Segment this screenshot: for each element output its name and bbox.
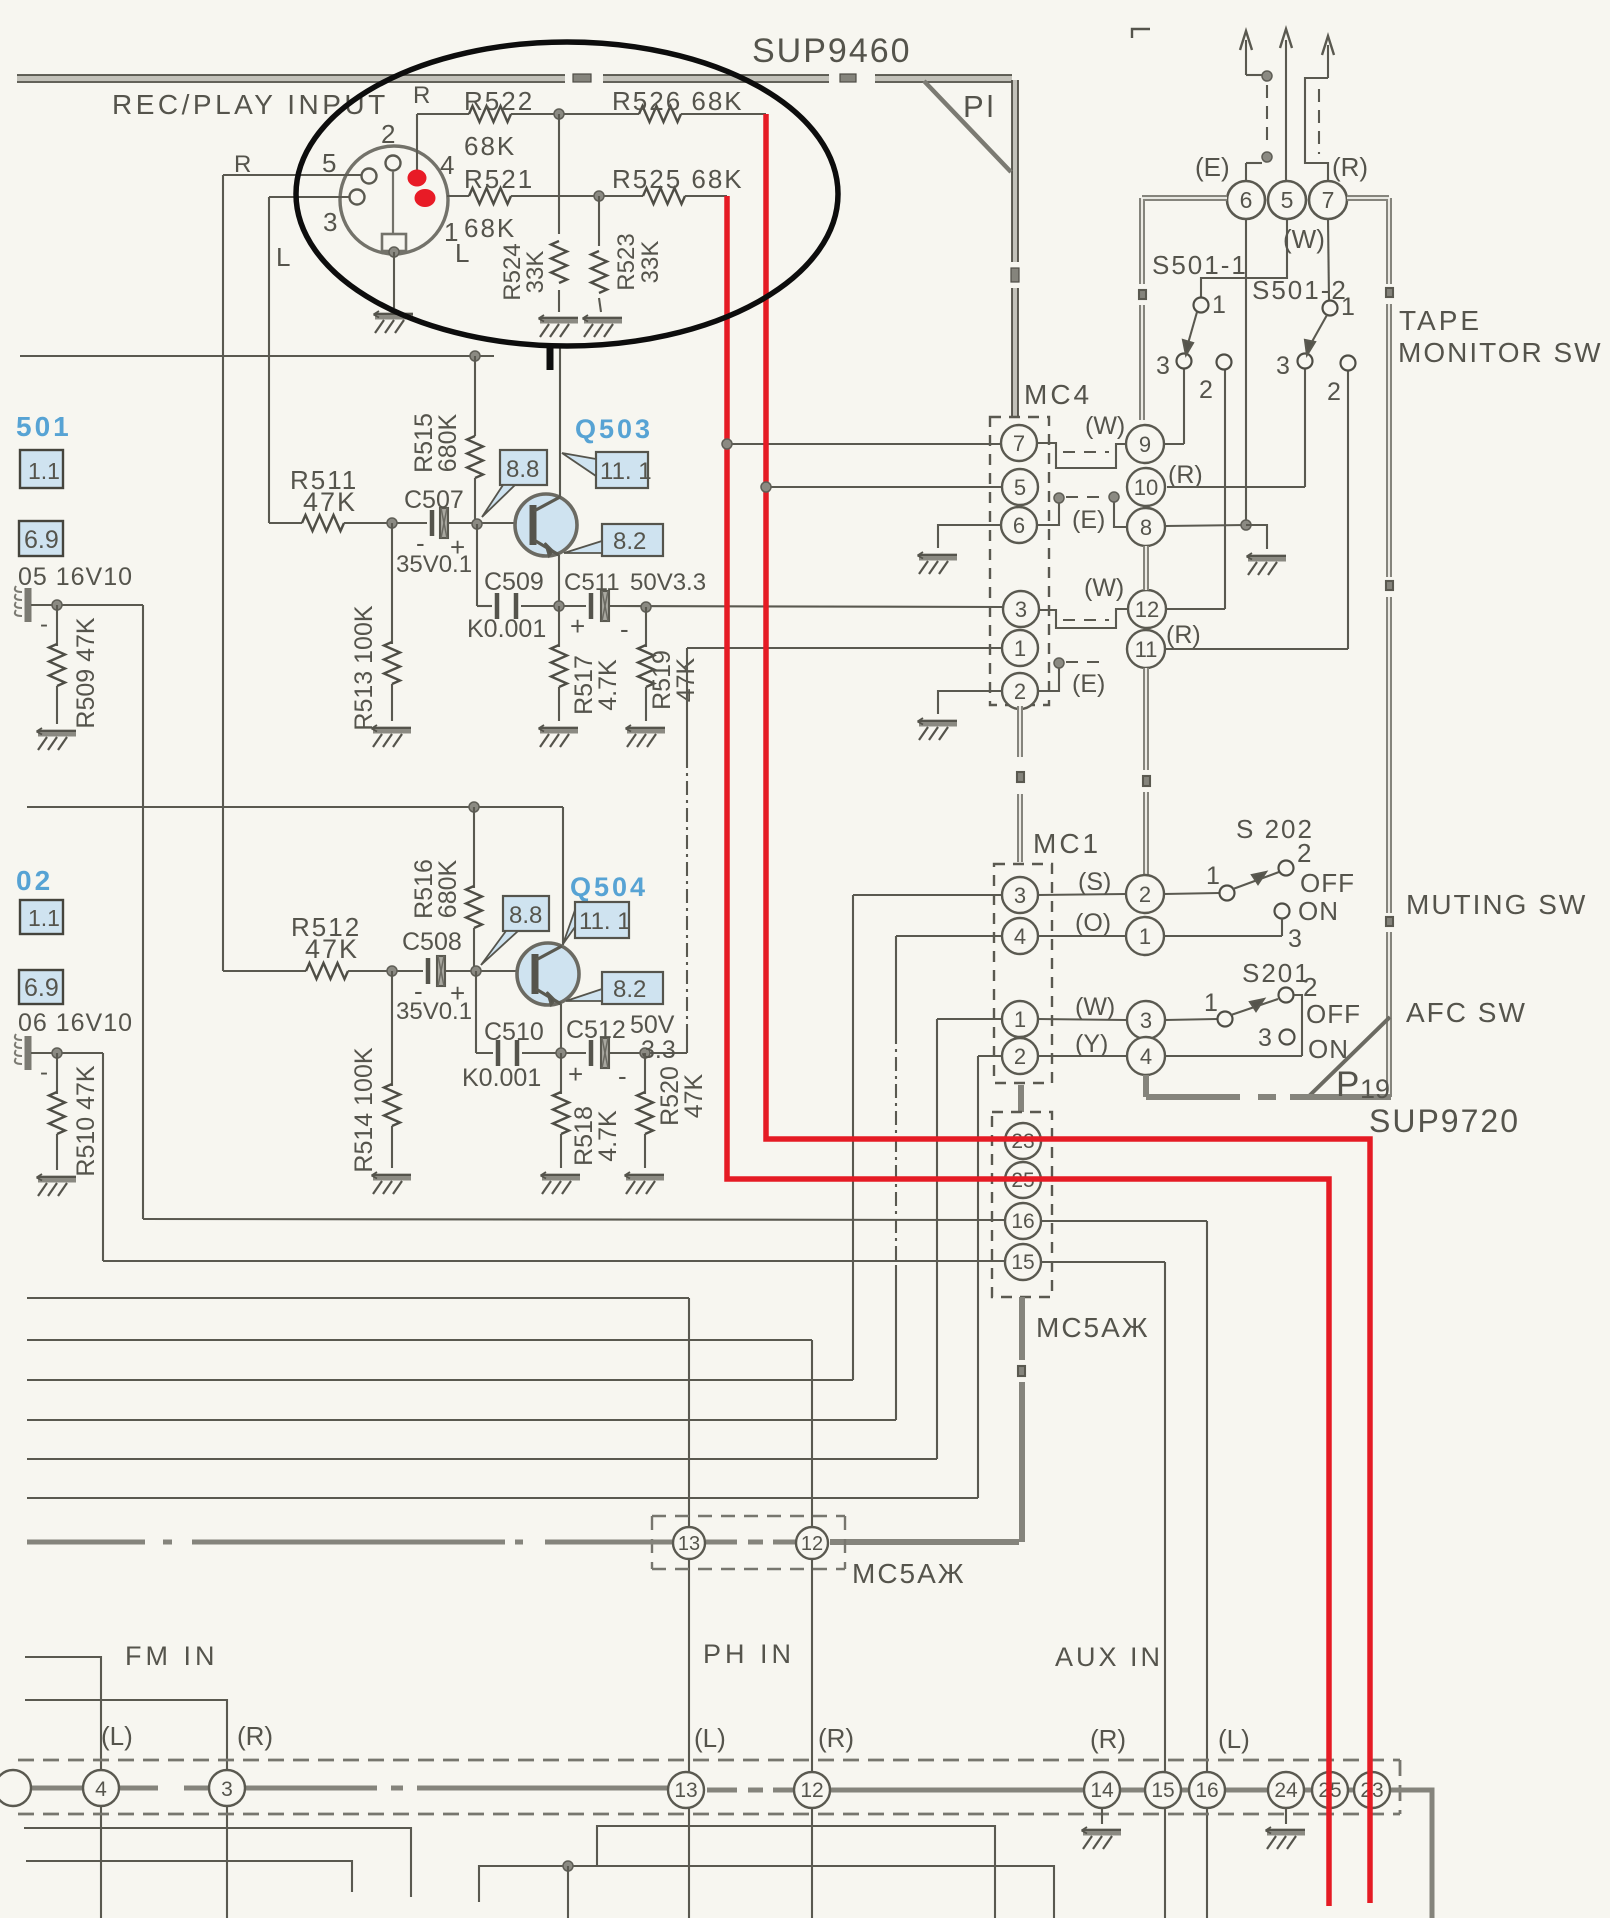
svg-text:12: 12 [801, 1533, 823, 1555]
svg-text:06 16V10: 06 16V10 [18, 1009, 133, 1037]
svg-text:(L): (L) [694, 1723, 726, 1753]
svg-text:33K: 33K [637, 241, 664, 284]
svg-text:+: + [568, 1059, 583, 1089]
svg-text:8: 8 [1140, 515, 1152, 540]
svg-text:3.3: 3.3 [641, 1036, 676, 1064]
svg-text:R: R [413, 82, 430, 109]
svg-text:4.7K: 4.7K [594, 659, 622, 711]
svg-text:R509 47K: R509 47K [72, 617, 100, 729]
svg-text:(R): (R) [237, 1721, 273, 1751]
svg-text:19: 19 [1360, 1074, 1390, 1104]
svg-text:1: 1 [1341, 293, 1355, 321]
svg-text:R526 68K: R526 68K [612, 86, 744, 116]
svg-text:16: 16 [1011, 1210, 1034, 1233]
svg-text:5: 5 [1014, 475, 1026, 500]
svg-text:4: 4 [440, 150, 454, 180]
svg-text:11. 1: 11. 1 [600, 458, 652, 485]
svg-text:Pl: Pl [963, 89, 997, 124]
svg-text:11. 1: 11. 1 [579, 908, 631, 935]
svg-text:MC1: MC1 [1033, 828, 1101, 859]
svg-text:6.9: 6.9 [24, 526, 59, 554]
svg-text:1: 1 [1014, 1007, 1026, 1032]
svg-text:47K: 47K [305, 934, 359, 964]
svg-text:SUP9460: SUP9460 [752, 32, 912, 70]
svg-text:SUP9720: SUP9720 [1369, 1103, 1520, 1139]
svg-text:3: 3 [1258, 1024, 1272, 1052]
svg-text:L: L [276, 242, 290, 272]
svg-text:R523: R523 [613, 233, 640, 290]
svg-text:2: 2 [1199, 376, 1213, 404]
svg-text:(S): (S) [1078, 868, 1111, 896]
svg-text:2: 2 [1327, 378, 1341, 406]
svg-text:(E): (E) [1072, 670, 1105, 698]
svg-text:8.8: 8.8 [509, 902, 542, 929]
svg-text:TAPE: TAPE [1399, 305, 1482, 336]
svg-text:5: 5 [322, 148, 336, 178]
svg-text:AUX IN: AUX IN [1055, 1642, 1163, 1672]
svg-text:ON: ON [1298, 896, 1339, 926]
svg-text:24: 24 [1274, 1779, 1298, 1802]
svg-text:(O): (O) [1075, 909, 1111, 937]
svg-text:C511: C511 [564, 569, 620, 596]
svg-text:(W): (W) [1075, 993, 1115, 1021]
svg-text:501: 501 [16, 411, 72, 442]
svg-text:68K: 68K [464, 213, 516, 243]
svg-text:(R): (R) [1166, 621, 1201, 649]
svg-text:2: 2 [381, 119, 395, 149]
svg-text:K0.001: K0.001 [462, 1064, 541, 1092]
svg-text:OFF: OFF [1306, 999, 1361, 1029]
svg-text:4: 4 [95, 1778, 107, 1801]
svg-text:7: 7 [1013, 431, 1025, 456]
svg-text:S501-1: S501-1 [1152, 250, 1248, 280]
svg-text:R522: R522 [464, 86, 534, 116]
svg-text:R521: R521 [464, 164, 534, 194]
svg-text:FM IN: FM IN [125, 1641, 219, 1671]
svg-text:MC5AЖ: MC5AЖ [852, 1558, 966, 1589]
svg-text:(R): (R) [818, 1723, 854, 1753]
svg-text:7: 7 [1322, 187, 1335, 213]
svg-text:-: - [40, 1059, 48, 1086]
svg-text:6: 6 [1013, 513, 1025, 538]
svg-text:33K: 33K [522, 251, 549, 294]
svg-text:2: 2 [1014, 679, 1026, 704]
svg-text:12: 12 [800, 1779, 823, 1802]
svg-text:5: 5 [1281, 187, 1294, 213]
svg-text:(W): (W) [1283, 224, 1325, 254]
svg-text:4: 4 [1014, 924, 1026, 949]
svg-text:P: P [1336, 1065, 1359, 1104]
svg-text:1: 1 [1206, 862, 1220, 890]
svg-text:(E): (E) [1195, 152, 1230, 182]
svg-text:S201: S201 [1242, 958, 1311, 988]
svg-text:1.1: 1.1 [28, 905, 60, 931]
svg-text:680K: 680K [434, 859, 462, 918]
svg-text:9: 9 [1139, 432, 1151, 457]
svg-text:12: 12 [1135, 597, 1159, 622]
svg-text:-: - [40, 611, 48, 638]
svg-text:1: 1 [1212, 291, 1226, 319]
svg-text:PH IN: PH IN [703, 1639, 795, 1669]
svg-text:14: 14 [1090, 1779, 1114, 1802]
svg-text:3: 3 [1276, 352, 1290, 380]
svg-text:35V0.1: 35V0.1 [396, 998, 472, 1025]
svg-text:05 16V10: 05 16V10 [18, 563, 133, 591]
svg-text:68K: 68K [464, 131, 516, 161]
svg-text:1.1: 1.1 [28, 458, 60, 484]
svg-text:13: 13 [674, 1779, 697, 1802]
svg-text:(R): (R) [1090, 1724, 1126, 1754]
svg-text:2: 2 [1139, 882, 1151, 907]
svg-text:8.2: 8.2 [613, 528, 646, 555]
svg-text:OFF: OFF [1300, 868, 1355, 898]
svg-text:35V0.1: 35V0.1 [396, 551, 472, 578]
svg-text:6: 6 [1240, 187, 1253, 213]
svg-text:K0.001: K0.001 [467, 615, 546, 643]
svg-text:47K: 47K [680, 1073, 708, 1118]
svg-text:AFC SW: AFC SW [1406, 997, 1527, 1028]
svg-text:(L): (L) [101, 1721, 133, 1751]
svg-text:(W): (W) [1085, 412, 1125, 440]
svg-text:6.9: 6.9 [24, 974, 59, 1002]
svg-text:C508: C508 [402, 928, 462, 956]
svg-text:2: 2 [1297, 838, 1311, 868]
svg-text:(R): (R) [1332, 152, 1368, 182]
svg-text:Q504: Q504 [570, 872, 648, 902]
svg-text:C510: C510 [484, 1018, 544, 1046]
svg-text:13: 13 [678, 1533, 700, 1555]
svg-text:-: - [620, 614, 629, 644]
svg-text:Q503: Q503 [575, 414, 653, 444]
svg-text:(E): (E) [1072, 506, 1105, 534]
svg-text:R510 47K: R510 47K [72, 1065, 100, 1177]
svg-text:3: 3 [1156, 352, 1170, 380]
svg-text:+: + [570, 611, 585, 641]
svg-text:11: 11 [1135, 637, 1158, 662]
svg-text:16: 16 [1195, 1779, 1218, 1802]
svg-text:1: 1 [1014, 636, 1026, 661]
svg-text:47K: 47K [303, 487, 357, 517]
svg-text:50V: 50V [630, 1011, 675, 1039]
svg-text:R513 100K: R513 100K [350, 605, 378, 730]
svg-text:(L): (L) [1218, 1724, 1250, 1754]
svg-text:1: 1 [1139, 924, 1151, 949]
svg-text:15: 15 [1011, 1251, 1034, 1274]
svg-text:3: 3 [323, 207, 337, 237]
svg-text:ON: ON [1308, 1034, 1349, 1064]
svg-text:1: 1 [1204, 989, 1218, 1017]
svg-text:680K: 680K [434, 413, 462, 472]
svg-text:C509: C509 [484, 568, 544, 596]
svg-text:2: 2 [1303, 972, 1317, 1002]
svg-text:-: - [618, 1061, 627, 1091]
svg-text:(W): (W) [1084, 574, 1124, 602]
svg-text:02: 02 [16, 865, 53, 896]
svg-text:MUTING SW: MUTING SW [1406, 889, 1587, 920]
svg-text:4.7K: 4.7K [594, 1110, 622, 1162]
svg-text:MONITOR SW: MONITOR SW [1398, 337, 1603, 368]
svg-text:3: 3 [1288, 925, 1302, 953]
svg-text:(R): (R) [1168, 461, 1203, 489]
svg-text:3: 3 [1014, 883, 1026, 908]
svg-text:8.8: 8.8 [506, 456, 539, 483]
svg-text:4: 4 [1140, 1044, 1152, 1069]
svg-text:MC5AЖ: MC5AЖ [1036, 1312, 1150, 1343]
svg-text:3: 3 [1140, 1008, 1152, 1033]
svg-text:3: 3 [1015, 597, 1027, 622]
svg-text:R514 100K: R514 100K [350, 1047, 378, 1172]
svg-text:8.2: 8.2 [613, 976, 646, 1003]
svg-text:R525 68K: R525 68K [612, 164, 744, 194]
svg-text:C512: C512 [566, 1016, 626, 1044]
svg-text:3: 3 [221, 1778, 233, 1801]
svg-text:MC4: MC4 [1024, 379, 1092, 410]
svg-text:2: 2 [1014, 1044, 1026, 1069]
svg-text:(Y): (Y) [1075, 1030, 1108, 1058]
svg-text:10: 10 [1134, 475, 1158, 500]
svg-text:15: 15 [1151, 1779, 1174, 1802]
svg-text:C507: C507 [404, 486, 464, 514]
svg-text:50V3.3: 50V3.3 [630, 569, 706, 596]
